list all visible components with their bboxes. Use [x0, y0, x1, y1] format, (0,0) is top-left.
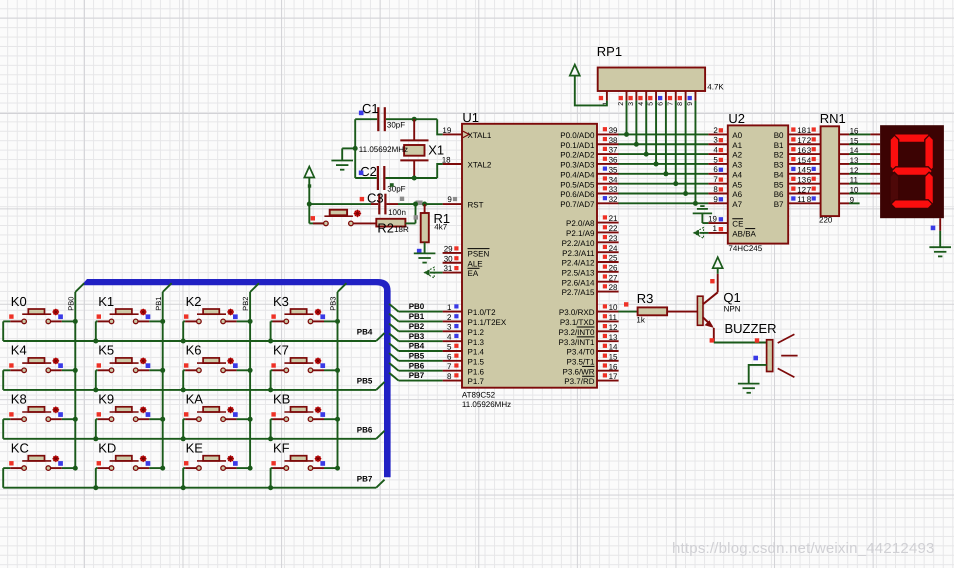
- push button KC: [3, 441, 75, 488]
- svg-text:KB: KB: [273, 392, 290, 407]
- svg-text:18: 18: [797, 126, 806, 135]
- svg-text:12: 12: [797, 185, 806, 194]
- svg-text:100n: 100n: [388, 208, 406, 217]
- svg-text:KF: KF: [273, 441, 290, 456]
- svg-text:K2: K2: [186, 294, 202, 309]
- pin P2.5 (26) stub: [597, 271, 619, 273]
- svg-text:XTAL1: XTAL1: [468, 131, 492, 140]
- pin RP1-9 with drop wire: [694, 91, 696, 101]
- wire RN1 out 11 to display: [839, 183, 849, 185]
- pin P2.7 (28) stub: [597, 291, 619, 293]
- pin P3.7 (17) stub: [597, 380, 619, 382]
- wire RN1 out 14 to display: [839, 153, 849, 155]
- svg-text:A4: A4: [732, 170, 742, 179]
- svg-text:P3.1/TXD: P3.1/TXD: [560, 318, 595, 327]
- buzzer body: [767, 340, 773, 372]
- marker reset button red square: [311, 216, 315, 220]
- svg-text:PB2: PB2: [241, 297, 250, 311]
- crystal X1: [413, 119, 415, 140]
- junction C1/X1: [412, 117, 417, 122]
- svg-text:37: 37: [609, 146, 618, 155]
- push button K6: [183, 343, 250, 390]
- svg-text:P3.3/INT1: P3.3/INT1: [558, 338, 595, 347]
- keypad row wire PB7: [3, 487, 376, 489]
- overline INT1: [577, 336, 595, 338]
- junction ground tap: [353, 146, 358, 151]
- bus tap and wire PB5 to P1.5: [389, 353, 398, 361]
- svg-text:X1: X1: [428, 142, 444, 157]
- svg-text:RN1: RN1: [820, 111, 846, 126]
- svg-text:10: 10: [850, 186, 859, 195]
- wire P0.5 to U2 A5: [618, 183, 708, 185]
- gray marker on RST wire 1: [400, 197, 404, 201]
- svg-text:30: 30: [444, 254, 453, 263]
- pin P1.0 (1) stub: [443, 311, 462, 313]
- svg-text:P3.7/RD: P3.7/RD: [564, 377, 594, 386]
- svg-text:K3: K3: [273, 294, 289, 309]
- push button KB: [271, 392, 338, 439]
- junction KF row drop: [268, 485, 273, 490]
- svg-text:PB4: PB4: [409, 342, 425, 351]
- svg-text:K6: K6: [186, 343, 202, 358]
- Q1 emitter with arrow: [703, 317, 712, 326]
- pin P3.4 (14) stub: [597, 350, 619, 352]
- bus tap and wire PB7 to P1.7: [389, 373, 398, 381]
- wire left vertical C1-C2: [354, 119, 356, 178]
- svg-text:U1: U1: [462, 110, 479, 125]
- segment G (middle, lit): [892, 167, 933, 176]
- wire VCC to C3: [309, 203, 371, 205]
- svg-text:8: 8: [807, 195, 812, 204]
- wire AB/BA terminal: [699, 232, 708, 234]
- svg-text:P1.5: P1.5: [468, 357, 485, 366]
- junction K7 row drop: [268, 387, 273, 392]
- pin P2.6 (27) stub: [597, 281, 619, 283]
- svg-text:P1.1/T2EX: P1.1/T2EX: [468, 318, 507, 327]
- ground (crystal): [331, 160, 353, 162]
- svg-text:P2.2/A10: P2.2/A10: [562, 239, 595, 248]
- marker buzzer red: [755, 338, 759, 342]
- svg-text:PB3: PB3: [409, 332, 425, 341]
- bus tap and wire PB4 to P1.4: [389, 343, 398, 351]
- svg-text:14: 14: [850, 146, 859, 155]
- buzzer sound rays: [778, 334, 795, 343]
- junction K6 row drop: [181, 387, 186, 392]
- svg-text:P2.1/A9: P2.1/A9: [566, 229, 595, 238]
- gray marker right of 9: [453, 197, 457, 201]
- svg-text:1: 1: [713, 224, 718, 233]
- pin U2 B4 (14) and RN1 pin 5: [788, 173, 820, 175]
- svg-text:BUZZER: BUZZER: [725, 321, 777, 336]
- svg-text:B1: B1: [774, 141, 784, 150]
- junction R2 riser: [413, 202, 418, 207]
- svg-text:PB0: PB0: [66, 297, 75, 311]
- pin XTAL1 (19) stub: [443, 133, 462, 135]
- svg-text:14: 14: [797, 166, 806, 175]
- pin P3.1 (11) stub: [597, 320, 619, 322]
- chip U1 AT89C52 body: [462, 124, 597, 388]
- pin P2.0 (21) stub: [597, 222, 619, 224]
- svg-text:PB5: PB5: [357, 377, 373, 386]
- svg-text:3: 3: [447, 323, 452, 332]
- svg-text:33: 33: [609, 185, 618, 194]
- overline INT0: [577, 326, 595, 328]
- wire C1 net to XTAL1: [355, 118, 377, 120]
- svg-text:35: 35: [609, 165, 618, 174]
- marker R1 blue: [417, 249, 422, 254]
- marker Q1 collector red: [710, 279, 714, 283]
- wire C3 to RST pin: [387, 203, 398, 205]
- wire R2 to RST net: [405, 222, 415, 224]
- svg-text:PB5: PB5: [409, 351, 425, 360]
- pin P1.1 (2) stub: [443, 320, 462, 322]
- svg-text:ALE: ALE: [468, 259, 483, 268]
- svg-text:P3.2/INT0: P3.2/INT0: [558, 328, 595, 337]
- pin RP1-2 with drop wire: [626, 91, 628, 101]
- svg-text:10: 10: [609, 303, 618, 312]
- svg-text:19: 19: [708, 214, 717, 223]
- svg-text:NPN: NPN: [724, 305, 741, 314]
- svg-text:A6: A6: [732, 190, 742, 199]
- push button K5: [96, 343, 163, 390]
- svg-text:A0: A0: [732, 131, 742, 140]
- svg-text:9: 9: [713, 195, 718, 204]
- power terminal (Q1): [713, 257, 723, 268]
- segment E (bottom-left, unlit): [890, 172, 899, 208]
- svg-text:9: 9: [687, 102, 694, 106]
- svg-text:KD: KD: [98, 441, 116, 456]
- svg-text:B4: B4: [774, 170, 784, 179]
- pin U2 A5 (7): [708, 183, 727, 185]
- pin P3.5 (15) stub: [597, 360, 619, 362]
- svg-text:B0: B0: [774, 131, 784, 140]
- svg-text:11.05926MHz: 11.05926MHz: [462, 400, 511, 409]
- respack RP1 body: [598, 68, 705, 92]
- svg-text:2: 2: [807, 136, 812, 145]
- Q1 collector: [703, 292, 718, 304]
- svg-text:17: 17: [609, 372, 618, 381]
- bus (blue) keypad to U1: [82, 279, 391, 477]
- pin P2.1 (22) stub: [597, 231, 619, 233]
- svg-text:P2.4/A12: P2.4/A12: [562, 259, 595, 268]
- svg-text:12: 12: [609, 323, 618, 332]
- junction K5 column: [160, 368, 165, 373]
- svg-text:5: 5: [447, 342, 452, 351]
- junction KA row drop: [181, 436, 186, 441]
- svg-text:PB3: PB3: [329, 297, 338, 311]
- svg-text:K4: K4: [11, 343, 27, 358]
- svg-text:PB1: PB1: [154, 297, 163, 311]
- bus tap and wire PB1 to P1.1: [389, 314, 398, 322]
- wire P0.4 to U2 A4: [618, 173, 708, 175]
- junction C2/X1: [412, 176, 417, 181]
- wire P0.2 to U2 A2: [618, 153, 708, 155]
- svg-text:PB2: PB2: [409, 322, 425, 331]
- pin U2 B1 (17) and RN1 pin 2: [788, 143, 820, 145]
- marker display blue: [931, 226, 936, 231]
- pin U2 A2 (4): [708, 153, 727, 155]
- keypad column wire PB0: [74, 292, 76, 468]
- svg-text:P0.7/AD7: P0.7/AD7: [560, 200, 595, 209]
- push button K3: [271, 294, 338, 341]
- svg-text:15: 15: [850, 136, 859, 145]
- ground (buzzer): [738, 383, 760, 385]
- bus tap and wire PB6 to P1.6: [389, 363, 398, 371]
- svg-text:B2: B2: [774, 151, 784, 160]
- svg-text:220: 220: [819, 216, 833, 225]
- svg-text:P3.5/T1: P3.5/T1: [566, 357, 595, 366]
- junction KD column: [160, 466, 165, 471]
- svg-text:A1: A1: [732, 141, 742, 150]
- ground (R1): [414, 252, 436, 254]
- pin U2 A4 (6): [708, 173, 727, 175]
- svg-text:PB4: PB4: [357, 328, 373, 337]
- pin U2 A0 (2): [708, 133, 727, 135]
- segment C (bottom-right, lit): [925, 172, 934, 208]
- svg-text:28: 28: [609, 283, 618, 292]
- svg-text:R2: R2: [377, 220, 394, 235]
- transistor Q1 base bar: [697, 296, 703, 325]
- segment A (top, lit): [891, 134, 933, 143]
- pin P1.4 (5) stub: [443, 350, 462, 352]
- 7-segment display body: [880, 125, 944, 218]
- pin P1.6 (7) stub: [443, 370, 462, 372]
- marker reset button red circle: [354, 210, 361, 217]
- keypad column wire PB3: [337, 292, 339, 468]
- wire RN1 out 9 to display: [839, 202, 849, 204]
- marker C2 blue: [359, 171, 364, 176]
- resistor R2: [376, 219, 405, 227]
- svg-text:PB7: PB7: [409, 371, 425, 380]
- terminal arrow AB/BA: [694, 228, 704, 239]
- capacitor C1: [377, 107, 379, 131]
- svg-text:P2.3/A11: P2.3/A11: [562, 249, 595, 258]
- svg-text:A3: A3: [732, 161, 742, 170]
- capacitor C3: [378, 194, 380, 215]
- segment D (bottom, lit): [891, 200, 933, 209]
- push button KD: [96, 441, 163, 488]
- junction KB row drop: [268, 436, 273, 441]
- svg-text:8: 8: [677, 102, 684, 106]
- push button KA: [183, 392, 250, 439]
- svg-text:P1.4: P1.4: [468, 348, 485, 357]
- pin P1.7 (8) stub: [443, 380, 462, 382]
- svg-text:26: 26: [609, 263, 618, 272]
- wire P0.0 to U2 A0: [618, 133, 708, 135]
- svg-text:34: 34: [609, 175, 618, 184]
- pin RST (9) stub: [443, 203, 462, 205]
- segment B (top-right, lit): [925, 135, 934, 172]
- junction KE row drop: [181, 485, 186, 490]
- junction KF column: [335, 466, 340, 471]
- svg-text:3: 3: [807, 146, 812, 155]
- wire R3 to Q1 base: [667, 311, 697, 313]
- junction K3 row drop: [268, 339, 273, 344]
- svg-text:25: 25: [609, 254, 618, 263]
- svg-text:RST: RST: [468, 201, 484, 210]
- svg-text:31: 31: [443, 264, 452, 273]
- pin P0.4 (35) stub: [597, 173, 619, 175]
- svg-text:P3.0/RXD: P3.0/RXD: [559, 308, 595, 317]
- pin U2 B0 (18) and RN1 pin 1: [788, 133, 820, 135]
- push button KE: [183, 441, 250, 488]
- push button KF: [271, 441, 338, 488]
- pin U2 B2 (16) and RN1 pin 3: [788, 153, 820, 155]
- junction K9 column: [160, 417, 165, 422]
- power terminal (RP1): [570, 65, 580, 76]
- wire RN1 out 10 to display: [839, 193, 849, 195]
- junction VCC/reset: [307, 202, 312, 207]
- chip U2 74HC245 body: [728, 125, 788, 243]
- svg-text:PSEN: PSEN: [468, 250, 490, 259]
- svg-text:11: 11: [797, 195, 806, 204]
- bus tap and wire PB3 to P1.3: [389, 333, 398, 341]
- svg-text:11: 11: [609, 313, 618, 322]
- svg-text:11.05692MHz: 11.05692MHz: [359, 145, 408, 154]
- junction K7 column: [335, 368, 340, 373]
- marker C3 red: [360, 197, 364, 201]
- svg-text:16: 16: [609, 362, 618, 371]
- svg-text:PB1: PB1: [409, 312, 425, 321]
- pin U2 B6 (12) and RN1 pin 7: [788, 193, 820, 195]
- svg-text:PB7: PB7: [357, 474, 373, 483]
- pin P3.3 (13) stub: [597, 340, 619, 342]
- wire P0.7 to U2 A7: [618, 202, 708, 204]
- svg-text:KE: KE: [186, 441, 204, 456]
- pin P2.4 (25) stub: [597, 261, 619, 263]
- svg-text:K0: K0: [11, 294, 27, 309]
- svg-text:KC: KC: [11, 441, 29, 456]
- svg-text:4: 4: [447, 333, 452, 342]
- svg-text:P1.2: P1.2: [468, 328, 485, 337]
- pin RP1-4 with drop wire: [645, 91, 647, 101]
- svg-text:R3: R3: [637, 291, 654, 306]
- pin P0.7 (32) stub: [597, 202, 619, 204]
- svg-text:16: 16: [797, 146, 806, 155]
- pin P0.5 (34) stub: [597, 183, 619, 185]
- svg-text:P3.6/WR: P3.6/WR: [562, 367, 594, 376]
- marker C1 blue: [359, 111, 364, 116]
- pin U2 CE (19): [708, 222, 727, 224]
- wire RN1 out 15 to display: [839, 143, 849, 145]
- svg-text:U2: U2: [728, 111, 745, 126]
- svg-text:P3.4/T0: P3.4/T0: [566, 348, 595, 357]
- svg-text:6: 6: [807, 175, 812, 184]
- svg-text:K5: K5: [98, 343, 114, 358]
- svg-text:27: 27: [609, 273, 618, 282]
- pin XTAL2 (18) stub: [443, 163, 462, 165]
- wire CE to ground: [702, 222, 708, 224]
- svg-text:30pF: 30pF: [387, 120, 405, 129]
- svg-text:P2.6/A14: P2.6/A14: [562, 278, 595, 287]
- wire RN1 out 16 to display: [839, 133, 849, 135]
- pin P1.5 (6) stub: [443, 360, 462, 362]
- junction K4 column: [73, 368, 78, 373]
- svg-text:32: 32: [609, 195, 618, 204]
- svg-text:6: 6: [713, 165, 718, 174]
- svg-text:P2.0/A8: P2.0/A8: [566, 219, 595, 228]
- svg-text:13: 13: [797, 175, 806, 184]
- junction KB column: [335, 417, 340, 422]
- svg-text:14: 14: [609, 343, 618, 352]
- gray marker R2 right: [414, 215, 418, 219]
- overline RD: [582, 375, 594, 377]
- svg-text:17: 17: [797, 136, 806, 145]
- pin P0.6 (33) stub: [597, 193, 619, 195]
- junction K1 column: [160, 319, 165, 324]
- svg-text:3: 3: [713, 136, 718, 145]
- svg-text:C1: C1: [362, 101, 379, 116]
- svg-text:1k: 1k: [636, 315, 645, 324]
- svg-text:P2.5/A13: P2.5/A13: [562, 268, 595, 277]
- pin U2 B5 (13) and RN1 pin 6: [788, 183, 820, 185]
- wire P3.0 to R3: [618, 311, 637, 313]
- pin P0.1 (38) stub: [597, 143, 619, 145]
- bus tap and wire PB2 to P1.2: [389, 324, 398, 332]
- svg-text:AB/BA: AB/BA: [732, 230, 756, 239]
- svg-text:3: 3: [628, 102, 635, 106]
- svg-text:XTAL2: XTAL2: [468, 161, 492, 170]
- pin P3.0 (10) stub: [597, 311, 619, 313]
- wire P0.3 to U2 A3: [618, 163, 708, 165]
- svg-text:P1.3: P1.3: [468, 338, 485, 347]
- keypad column wire PB1: [162, 292, 164, 468]
- wire RN1 out 13 to display: [839, 163, 849, 165]
- svg-text:9: 9: [850, 195, 855, 204]
- pin U2 B3 (15) and RN1 pin 4: [788, 163, 820, 165]
- svg-text:15: 15: [609, 352, 618, 361]
- svg-text:PB6: PB6: [409, 361, 425, 370]
- keypad row wire PB4: [3, 340, 376, 342]
- wire emitter to buzzer: [714, 342, 767, 344]
- junction K6 column: [248, 368, 253, 373]
- svg-text:74HC245: 74HC245: [728, 244, 762, 253]
- pin U2 B7 (11) and RN1 pin 8: [788, 202, 820, 204]
- svg-text:11: 11: [850, 176, 859, 185]
- pin U2 A6 (8): [708, 193, 727, 195]
- display common pin wire: [939, 218, 941, 231]
- pin P0.3 (36) stub: [597, 163, 619, 165]
- junction K9 row drop: [93, 436, 98, 441]
- svg-text:22: 22: [609, 224, 618, 233]
- svg-text:AT89C52: AT89C52: [462, 391, 496, 400]
- pin RP1-6 with drop wire: [665, 91, 667, 101]
- svg-text:29: 29: [444, 244, 453, 253]
- svg-text:8: 8: [447, 372, 452, 381]
- marker green small: [390, 183, 394, 187]
- reset button: [309, 222, 323, 224]
- resistor R1: [424, 204, 426, 213]
- pin RP1-1: [606, 91, 608, 101]
- svg-text:2: 2: [618, 102, 625, 106]
- ground (display): [929, 246, 951, 248]
- push button K1: [96, 294, 163, 341]
- svg-text:4k7: 4k7: [434, 223, 447, 232]
- push button K8: [3, 392, 75, 439]
- push button K7: [271, 343, 338, 390]
- wire to crystal ground: [342, 147, 355, 149]
- pin U2 AB/BA (1): [708, 232, 727, 234]
- svg-text:C3: C3: [367, 190, 384, 205]
- push button K4: [3, 343, 75, 390]
- svg-text:5: 5: [713, 155, 718, 164]
- pin EA (31) stub: [443, 272, 462, 274]
- marker R3 left red: [624, 302, 628, 306]
- svg-text:K9: K9: [98, 392, 114, 407]
- svg-text:23: 23: [609, 234, 618, 243]
- junction K8 column: [73, 417, 78, 422]
- marker Q1 emitter red: [710, 338, 714, 342]
